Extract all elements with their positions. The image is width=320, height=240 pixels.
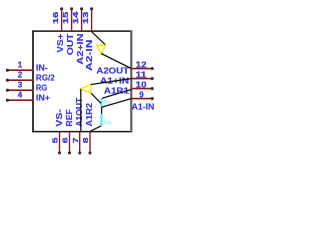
svg-text:A1-IN: A1-IN (132, 101, 155, 111)
op-amp A1 (triangle) (81, 84, 92, 93)
svg-text:A1R2: A1R2 (84, 103, 94, 127)
svg-text:6: 6 (61, 138, 70, 144)
svg-text:OUT: OUT (65, 33, 75, 56)
pin 3 (RG) (6, 81, 47, 93)
svg-text:RG/2: RG/2 (36, 73, 55, 83)
svg-text:A2-IN: A2-IN (84, 40, 94, 72)
pin 16 (VS+) (51, 7, 65, 52)
pin 9 (A1-IN) (131, 90, 154, 111)
wire between R1 and R2 (101, 107, 103, 113)
op-amp A2 (triangle) (97, 45, 106, 53)
pin 4 (IN+) (6, 91, 50, 103)
wire resistor R1 bottom to pin 9 (102, 99, 132, 108)
pin 6 (REF) (61, 109, 74, 154)
svg-text:12: 12 (136, 60, 147, 69)
resistor A1R1 20k (cyan) (100, 98, 111, 108)
pin 12 (A2OUT) (96, 60, 153, 75)
svg-text:8: 8 (81, 138, 90, 144)
wire resistor R2 bottom to pin 8 (90, 126, 101, 131)
svg-text:1: 1 (18, 61, 23, 70)
svg-text:10: 10 (136, 80, 147, 89)
pin 15 (OUT) (61, 7, 75, 55)
svg-text:3: 3 (18, 81, 23, 90)
svg-text:A1OUT: A1OUT (74, 97, 84, 127)
svg-text:20k: 20k (103, 120, 112, 126)
IC body outline U1 (32, 30, 132, 132)
svg-text:11: 11 (136, 70, 147, 79)
wire A1 output down to pin 7 (80, 89, 82, 132)
pin 14 (A2+IN) (71, 7, 85, 64)
svg-text:IN-: IN- (36, 63, 48, 73)
pin 10 (A1R1) (104, 80, 154, 95)
pin 1 (IN-) (6, 61, 48, 73)
svg-text:VS-: VS- (54, 109, 64, 127)
wire resistor R1 top to pin 10 (102, 90, 131, 99)
pin 2 (RG/2) (6, 71, 55, 83)
wire pin13 to op-amp A2 input (92, 32, 106, 46)
wire A1 -input to resistor R1 (91, 93, 101, 103)
pin 7 (A1OUT) (71, 97, 84, 155)
svg-text:REF: REF (64, 109, 74, 127)
svg-text:A2OUT: A2OUT (96, 66, 130, 76)
svg-text:9: 9 (139, 90, 144, 99)
svg-text:2: 2 (18, 71, 23, 80)
svg-text:5: 5 (51, 138, 60, 144)
svg-text:4: 4 (18, 91, 23, 100)
svg-text:13: 13 (81, 12, 90, 24)
svg-text:VS+: VS+ (55, 33, 65, 52)
svg-text:15: 15 (61, 12, 70, 24)
pin 5 (VS-) (51, 109, 64, 155)
svg-text:14: 14 (71, 10, 80, 24)
pin 11 (A1+IN) (100, 70, 154, 85)
svg-text:IN+: IN+ (36, 93, 50, 103)
wire A2 output to pin 12 (101, 54, 131, 69)
svg-text:7: 7 (71, 138, 80, 144)
wire A1 +input to pin 11 (91, 79, 131, 85)
svg-text:RG: RG (36, 83, 47, 93)
svg-text:16: 16 (51, 12, 60, 24)
resistor A1R2 20k (cyan) (100, 114, 112, 127)
pin 8 (A1R2) (81, 103, 94, 155)
pin 13 (A2-IN) (81, 7, 94, 71)
